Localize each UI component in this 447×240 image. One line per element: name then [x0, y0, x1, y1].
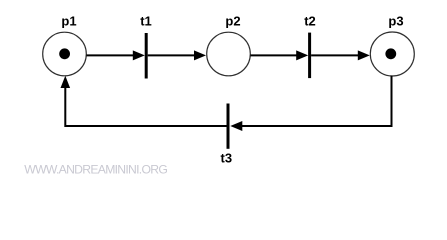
svg-text:p1: p1	[61, 14, 76, 29]
svg-text:t1: t1	[140, 14, 152, 29]
svg-text:WWW.ANDREAMININI.ORG: WWW.ANDREAMININI.ORG	[24, 163, 168, 177]
svg-text:p3: p3	[388, 14, 403, 29]
svg-text:p2: p2	[225, 14, 240, 29]
svg-text:t2: t2	[304, 14, 316, 29]
svg-text:t3: t3	[221, 151, 233, 166]
